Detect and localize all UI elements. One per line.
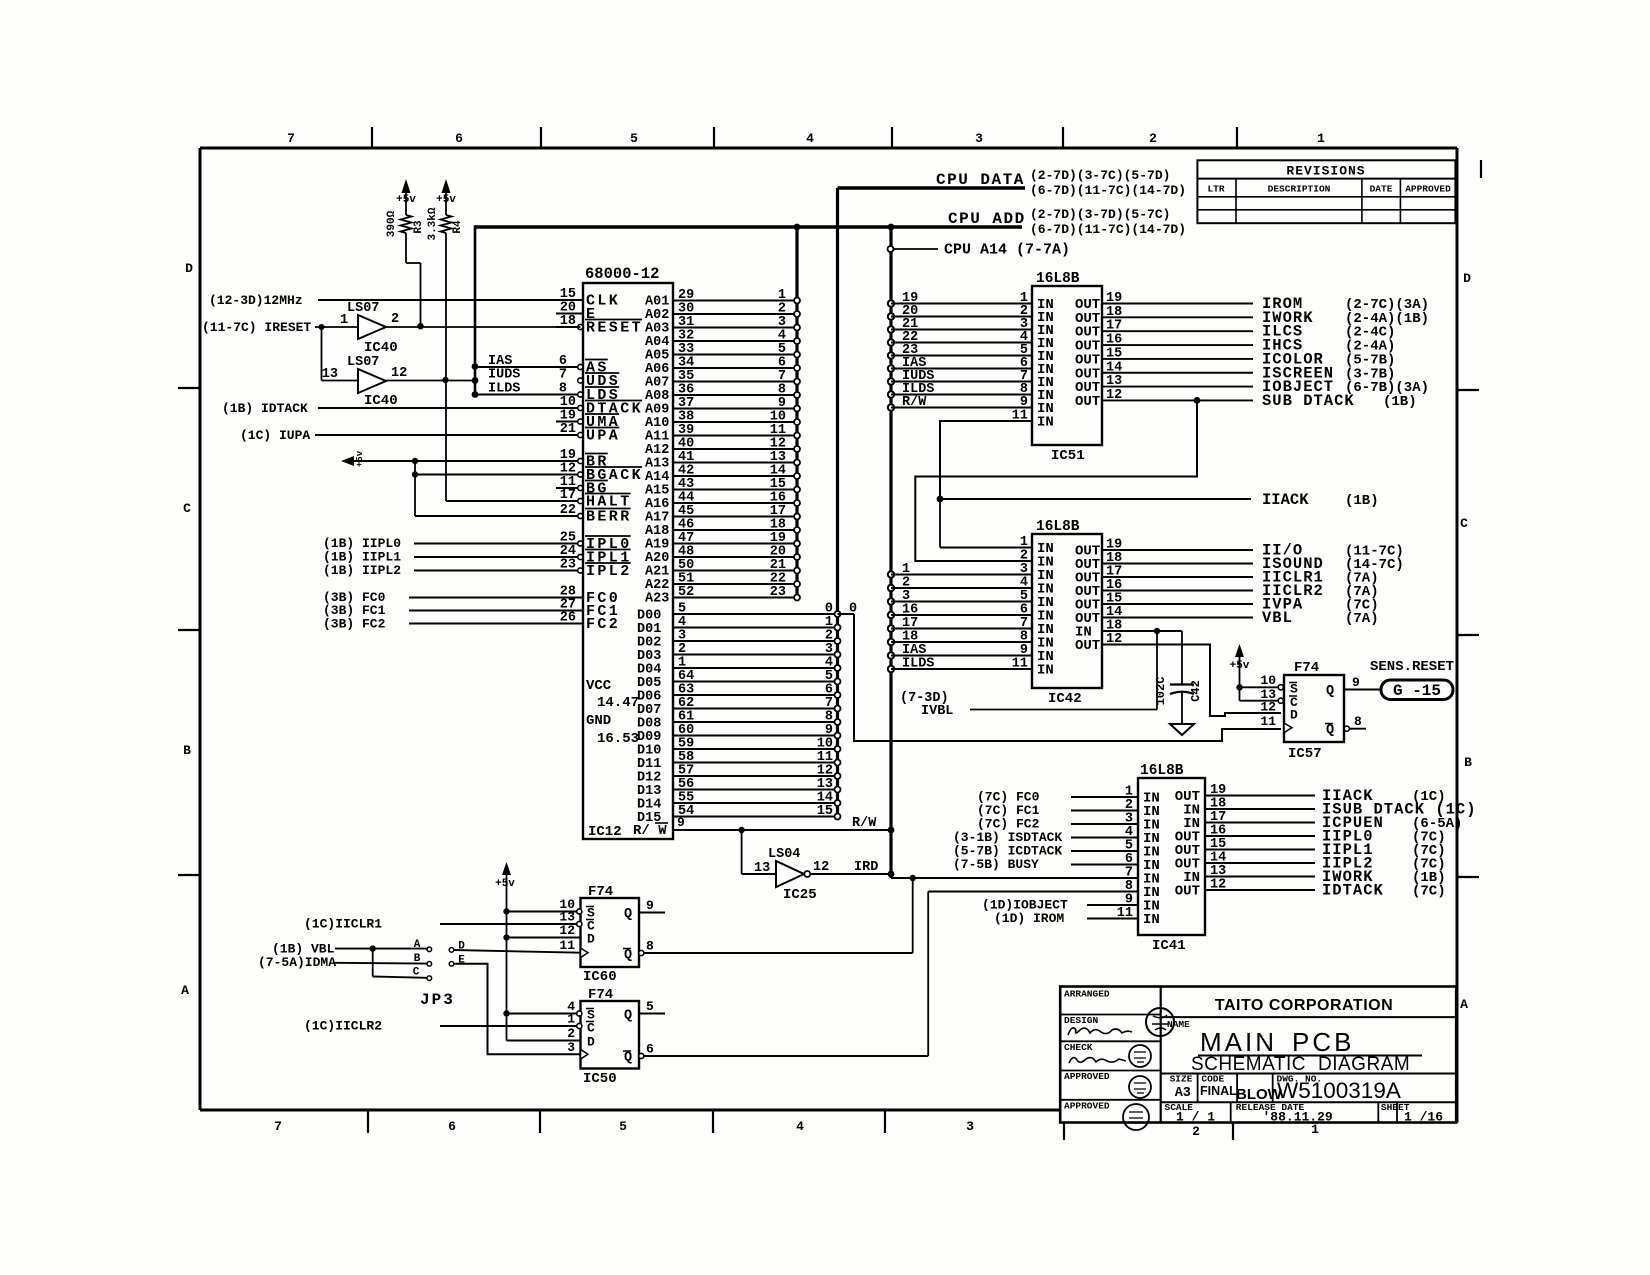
IC42 input pin 11 (ILDS) [888,657,1054,679]
capacitor C42 102C [1154,631,1203,724]
wire AS/strobe bus vertical [474,225,477,394]
CPU pin D03 wire (pin 2, data bit 3) [637,642,841,664]
svg-text:(1B): (1B) [1345,493,1379,509]
title block left column rows [1060,989,1161,1112]
wire IUPA net [240,428,578,443]
svg-text:Q: Q [624,1009,632,1024]
left border tick 2 [178,629,200,631]
IC41 input pin 9 (IOBJECT) [982,893,1160,915]
CPU pin 17 HALT [556,488,632,511]
IC42 output pin 19 II/O [1075,538,1404,560]
top zone number 5 [630,131,638,146]
CPU pin A10 wire (pin 38, addr bit 10) [645,410,800,432]
CPU pin 24 IPL1 [414,544,632,567]
svg-text:15: 15 [817,804,833,819]
IC51 output pin 15 ICOLOR [1075,346,1395,368]
CPU R/W pin label [633,815,685,839]
flip-flop F74 IC57 box [1284,660,1344,762]
jumper JP3 contact B-E [414,953,581,1054]
top zone number 2 [1149,131,1157,146]
svg-text:R4: R4 [452,220,464,234]
svg-text:9: 9 [1352,675,1360,690]
svg-text:16L8B: 16L8B [1036,519,1080,535]
CPU pin D07 wire (pin 62, data bit 7) [637,696,841,718]
IC51 input pin 2 (20) [888,304,1054,326]
svg-text:3.3kΩ: 3.3kΩ [427,207,439,240]
bottom border tick 1 [367,1110,369,1133]
flip-flop F74 IC60 box [581,884,640,985]
title MAIN PCB [1191,1027,1422,1075]
CPU pin UDS [577,373,620,390]
svg-text:13: 13 [754,861,770,876]
CPU pin 26 FC2 [409,611,620,634]
IC51 input pin 1 (19) [888,291,1054,313]
CPU pin A08 wire (pin 36, addr bit 8) [645,383,800,405]
PAL 16L8B IC51 box [1032,271,1102,464]
svg-text:FC2: FC2 [586,616,620,633]
wire IIPL2 net [323,563,578,578]
power +5V arrow for R4 [436,179,456,215]
CPU pin A17 wire (pin 45, addr bit 17) [645,504,800,526]
svg-text:UPA: UPA [586,428,620,445]
CPU pin A18 wire (pin 46, addr bit 18) [645,518,800,540]
svg-text:5: 5 [646,999,654,1014]
svg-text:LS07: LS07 [347,301,379,316]
svg-text:IC50: IC50 [583,1071,617,1087]
svg-text:11: 11 [559,938,575,953]
svg-text:(1C) IUPA: (1C) IUPA [240,428,310,443]
svg-text:CPU A14 (7-7A): CPU A14 (7-7A) [944,242,1070,259]
wire IVBL into IC42 pin18 [900,631,1157,719]
svg-text:7: 7 [274,1119,282,1134]
svg-text:R/W: R/W [902,395,927,410]
svg-text:(1C)IICLR1: (1C)IICLR1 [304,917,382,932]
svg-text:(1C)IICLR2: (1C)IICLR2 [304,1019,382,1034]
svg-text:A23: A23 [645,592,669,607]
svg-text:IN: IN [1143,912,1160,928]
svg-text:14: 14 [1106,360,1122,375]
svg-text:B: B [1464,755,1472,770]
PAL 16L8B IC42 box [1032,519,1102,707]
CPU pin 15 CLK [318,287,620,310]
svg-text:IPL2: IPL2 [586,563,632,580]
signature K.Moriyasu [1068,1028,1132,1035]
IC42 input pin 7 (17) [888,616,1054,638]
IC57 pin 12 D input [1260,700,1298,723]
top zone number 6 [455,131,463,146]
IC42 output pin 12 to IC57 D [1075,632,1281,716]
bottom border tick 3 [712,1110,714,1133]
IC41 output pin 18 ISUB DTACK (1C) [1183,797,1476,819]
CPU pin A02 wire (pin 30, addr bit 2) [645,302,800,324]
bottom zone number 7 [274,1119,282,1134]
svg-text:OUT: OUT [1175,884,1200,900]
svg-text:(1B) IDTACK: (1B) IDTACK [222,401,308,416]
CPU pin A07 wire (pin 35, addr bit 7) [645,369,800,391]
svg-text:DATE: DATE [1370,184,1393,195]
top zone number 7 [287,131,295,146]
CPU pin D00 wire (pin 5, data bit 0) [637,602,857,624]
svg-text:18: 18 [1106,305,1122,320]
IC41 output pin 19 IIACK [1175,783,1446,805]
svg-text:10: 10 [1260,673,1276,688]
bottom zone number 1 [1311,1122,1319,1137]
bottom border tick 2 [539,1110,541,1133]
svg-text:C42: C42 [1189,680,1203,702]
IC51 input pin 8 (ILDS) [888,382,1054,404]
CPU pin 19 BR [556,448,609,471]
svg-text:+5v: +5v [495,878,515,890]
svg-text:Q: Q [624,1051,632,1066]
svg-text:SIZE: SIZE [1170,1074,1193,1085]
wire FC1 net [323,603,583,618]
svg-text:(7A): (7A) [1345,611,1379,627]
wire FC2 net [323,617,583,632]
IC51 output pin 13 IOBJECT [1075,374,1429,396]
svg-text:LS04: LS04 [768,847,800,862]
svg-text:6: 6 [448,1119,456,1134]
svg-text:IRD: IRD [854,860,878,875]
svg-text:11: 11 [1012,657,1028,672]
wire LS07b output / HALT net [386,377,578,501]
CPU pin D02 wire (pin 3, data bit 2) [637,629,841,651]
IC42 input pin 3 (1) [888,562,1054,584]
bottom border tick 5 [1063,1122,1065,1140]
CPU pin A21 wire (pin 50, addr bit 21) [645,558,800,580]
node SENS.RESET connector G-15 [1370,659,1454,700]
CPU pin 12 BGACK [415,462,643,485]
svg-text:TAITO CORPORATION: TAITO CORPORATION [1215,997,1393,1014]
IC51 input pin 5 (23) [888,343,1054,365]
svg-text:IIACK: IIACK [1262,491,1309,509]
CPU pin AS [577,360,609,377]
svg-text:CHECK: CHECK [1064,1042,1093,1053]
left zone letter B [183,743,191,758]
right border tick 2 [1457,634,1479,636]
CPU pin 23 IPL2 [414,558,632,581]
wire D00 data bit to IC57 clock [838,614,1282,741]
IC41 input pin 4 ((3-1B) ISDTACK) [953,825,1160,847]
IC42 input pin 1 (IIACK) [940,499,1054,557]
IC51 input pin 4 (22) [888,330,1054,352]
CPU pin A03 wire (pin 31, addr bit 3) [645,315,800,337]
CPU pin D14 wire (pin 55, data bit 14) [637,791,841,813]
bottom zone number 4 [796,1119,804,1134]
CPU pin A19 wire (pin 47, addr bit 19) [645,531,800,553]
svg-text:DESIGN: DESIGN [1064,1015,1099,1026]
IC42 input pin 5 (3) [888,589,1054,611]
IC60 pin 11 clock input [559,938,588,958]
IC42 output pin 15 IVPA [1075,592,1379,614]
wire IIPL1 net [323,550,578,565]
CPU pin 11 BG [556,475,609,498]
svg-text:16L8B: 16L8B [1140,763,1184,779]
svg-text:9: 9 [646,898,654,913]
svg-text:(7-5A)IDMA: (7-5A)IDMA [258,955,336,970]
svg-text:D: D [587,932,595,947]
CPU pin A12 wire (pin 40, addr bit 12) [645,437,800,459]
IC57 pin 10 S input [1240,673,1299,697]
svg-text:B: B [183,743,191,758]
svg-text:R3: R3 [413,220,425,234]
CPU pin 28 FC0 [409,585,620,608]
wire BR net with +5 arrow [341,450,578,467]
right zone letter C [1460,516,1468,531]
left border tick 3 [178,874,200,876]
CPU pin 10 DTACK [318,395,643,418]
CPU pin D11 wire (pin 58, data bit 11) [637,750,841,772]
svg-text:W5100319A: W5100319A [1277,1078,1401,1103]
svg-text:1: 1 [567,1012,575,1027]
node CPU DATA bus label [838,168,1187,198]
power +5V arrow at IC57 [1230,644,1250,701]
svg-text:A: A [414,939,421,951]
svg-text:102C: 102C [1154,677,1168,706]
svg-text:1 / 1: 1 / 1 [1176,1110,1215,1125]
svg-text:R/W: R/W [852,816,877,831]
svg-text:G -15: G -15 [1393,682,1441,700]
svg-text:FINAL: FINAL [1200,1084,1237,1098]
svg-text:OUT: OUT [1075,394,1100,410]
wire LDS tap [472,382,578,398]
svg-text:A: A [1460,997,1468,1012]
svg-text:11: 11 [1012,409,1028,424]
jumper JP3 label [420,991,455,1009]
IC41 input pin 5 ((5-7B) ICDTACK) [953,839,1160,861]
svg-text:F74: F74 [1294,660,1319,676]
svg-text:6: 6 [646,1042,654,1057]
CPU pin A20 wire (pin 48, addr bit 20) [645,545,800,567]
IC41 input pin 2 ((7C) FC1) [977,798,1160,820]
inverter LS04 IC25 [742,830,830,903]
svg-text:2: 2 [567,1026,575,1041]
top-right corner mark [1480,160,1482,178]
svg-text:(1D) IROM: (1D) IROM [994,911,1064,926]
wire 12MHz clock net [209,293,583,308]
right zone letter A [1460,997,1468,1012]
svg-text:+5v: +5v [436,194,456,206]
IC41 output pin 15 IIPL1 [1175,837,1446,859]
wire IRESET input net [202,320,358,335]
svg-text:CODE: CODE [1201,1074,1224,1085]
svg-text:11: 11 [1117,906,1133,921]
CPU pin A22 wire (pin 51, addr bit 22) [645,572,800,594]
svg-text:68000-12: 68000-12 [585,265,659,283]
top border tick 4 [891,127,893,148]
CPU pin 27 FC1 [409,598,620,621]
buffer U-LS07a IC40 (pins 1-2) [340,301,399,356]
PAL 16L8B IC41 box [1138,763,1205,954]
CPU 68000 IC12 box [583,265,673,840]
wire IDTACK net [222,401,578,416]
svg-text:12: 12 [1210,878,1226,893]
svg-text:BERR: BERR [586,509,632,526]
bottom border tick 6 [1232,1122,1234,1140]
svg-text:3: 3 [966,1119,974,1134]
svg-text:D15: D15 [637,811,661,826]
svg-text:JP3: JP3 [420,991,455,1009]
CPU pin D05 wire (pin 64, data bit 5) [637,669,841,691]
power +5V arrow at IC60/IC50 [495,862,515,1041]
top border tick 2 [540,127,542,148]
svg-text:4: 4 [806,131,814,146]
wire R/W from CPU [673,816,894,833]
svg-text:IC25: IC25 [783,887,817,903]
svg-text:IC12: IC12 [588,824,622,840]
right border tick 1 [1457,389,1479,391]
svg-text:7: 7 [287,131,295,146]
CPU power pins text [586,678,639,747]
svg-text:12: 12 [1106,388,1122,403]
svg-text:IC41: IC41 [1152,938,1186,954]
svg-text:17: 17 [1106,319,1122,334]
svg-text:1: 1 [340,313,348,328]
svg-text:8: 8 [1354,714,1362,729]
IC51 output pin 12 SUB DTACK [1075,388,1417,410]
IC41 input pin 1 ((7C) FC0) [977,785,1160,807]
CPU pin D12 wire (pin 57, data bit 12) [637,764,841,786]
CPU pin A14 wire (pin 42, addr bit 14) [645,464,800,486]
wire IRD net [811,860,895,877]
svg-text:(7-5B) BUSY: (7-5B) BUSY [953,857,1039,872]
power +5V arrow for R3 [396,179,416,215]
svg-text:+5v: +5v [396,194,416,206]
IC51 input pin 3 (21) [888,317,1054,339]
CPU pin A15 wire (pin 43, addr bit 15) [645,477,800,499]
top zone number 4 [806,131,814,146]
IC51 input pin 6 (IAS) [888,356,1054,378]
CPU pin D13 wire (pin 56, data bit 13) [637,777,841,799]
name stamp circle 1 [1146,1008,1174,1036]
svg-text:LTR: LTR [1207,184,1224,195]
svg-text:2: 2 [1192,1124,1200,1139]
top border tick 6 [1236,127,1238,148]
CPU pin LDS [577,387,620,404]
IC50 pin 4 S input [503,999,595,1023]
CPU pin A05 wire (pin 33, addr bit 5) [645,342,800,364]
CPU pin A01 wire (pin 29, addr bit 1) [645,288,800,310]
wire IIPL0 net [323,536,578,551]
svg-text:IVBL: IVBL [921,704,953,719]
svg-text:Q: Q [624,907,632,922]
IC51 input pin 11 (IIACK feedback) [940,409,1054,500]
svg-text:A: A [181,983,189,998]
name stamp circle 4 [1123,1104,1149,1130]
svg-text:2: 2 [391,312,399,327]
IC41 input pin 3 ((7C) FC2) [977,812,1160,834]
IC51 output pin 16 IHCS [1075,333,1395,355]
right border tick 3 [1457,876,1479,878]
jumper JP3 contact C [373,949,432,981]
IC60 pin 10 S input [503,897,595,921]
svg-text:19: 19 [1106,291,1122,306]
wire control bus vertical [889,227,892,878]
svg-text:SUB DTACK: SUB DTACK [1262,392,1355,410]
svg-text:REVISIONS: REVISIONS [1286,164,1365,179]
bottom zone number 5 [619,1119,627,1134]
IC51 output pin 17 ILCS [1075,319,1395,341]
svg-text:A3: A3 [1175,1086,1191,1101]
CPU pin A06 wire (pin 34, addr bit 6) [645,356,800,378]
IC51 input pin 7 (IUDS) [888,369,1054,391]
svg-text:D: D [1463,271,1471,286]
svg-text:12: 12 [813,860,829,875]
IC42 feedback pin 18 IN (VBL) [1075,619,1182,641]
wire SUB DTACK branch to IC42 pin2 [915,397,1200,561]
svg-text:16.53: 16.53 [597,731,639,747]
svg-text:IC57: IC57 [1288,746,1322,762]
svg-text:D: D [185,261,193,276]
jumper JP3 contact A-D [414,939,581,953]
svg-text:1 /16: 1 /16 [1404,1110,1443,1125]
svg-text:16L8B: 16L8B [1036,271,1080,287]
svg-text:3: 3 [567,1040,575,1055]
svg-text:390Ω: 390Ω [386,210,398,237]
svg-text:SENS.RESET: SENS.RESET [1370,659,1454,675]
IC41 output pin 17 ICPUEN [1183,810,1462,832]
IC60 pin 13 C input (IICLR1) [304,910,595,934]
IC57 pin 13 C input [1240,687,1299,710]
svg-text:ARRANGED: ARRANGED [1064,989,1110,1000]
svg-text:(2-7D)(3-7C)(5-7D): (2-7D)(3-7C)(5-7D) [1030,168,1170,183]
title scale/date/sheet row [1161,1102,1456,1125]
svg-text:F74: F74 [588,884,613,900]
svg-text:8: 8 [646,939,654,954]
CPU pin 18 RESET [556,314,643,337]
svg-text:IUDS: IUDS [488,368,520,383]
svg-text:D: D [1290,708,1298,723]
svg-text:13: 13 [1106,374,1122,389]
CPU pin A09 wire (pin 37, addr bit 9) [645,396,800,418]
svg-text:(6-7D)(11-7C)(14-7D): (6-7D)(11-7C)(14-7D) [1030,183,1186,198]
IC41 output pin 16 IIPL0 [1175,824,1446,846]
title block frame [1060,987,1456,1123]
top border tick 3 [713,127,715,148]
bottom zone number 3 [966,1119,974,1134]
svg-text:CPU DATA: CPU DATA [936,171,1025,189]
wire IRESET branch to LS07b [322,327,359,381]
buffer U-LS07b IC40 (pins 13-12) [322,355,407,409]
CPU pin D15 wire (pin 54, data bit 15) [637,804,841,826]
IC41 input pin 8 (from IC50 Qbar) [928,879,1160,901]
signature t.morita [1069,1058,1126,1063]
IC42 input pin 9 (IAS) [888,643,1054,665]
svg-text:(2-7D)(3-7D)(5-7C): (2-7D)(3-7D)(5-7C) [1030,207,1170,222]
IC50 pin 1 C input (IICLR2) [304,1012,595,1036]
svg-text:5: 5 [619,1119,627,1134]
svg-text:1: 1 [1317,131,1325,146]
svg-text:16: 16 [1106,333,1122,348]
IC42 input pin 8 (18) [888,630,1054,652]
wire IIACK net [937,491,1379,509]
svg-text:(3B) FC2: (3B) FC2 [323,617,386,632]
IC42 output pin 17 IICLR1 [1075,565,1379,587]
wire BERR net [415,515,578,517]
wire VBL net [272,942,427,957]
svg-text:5: 5 [630,131,638,146]
top zone number 1 [1317,131,1325,146]
CPU pin D04 wire (pin 1, data bit 4) [637,656,841,678]
IC51 output pin 19 IROM [1075,291,1429,313]
svg-text:2: 2 [1149,131,1157,146]
IC42 input pin 2 (SUB DTACK) [1020,549,1054,571]
CPU pin A16 wire (pin 44, addr bit 16) [645,491,800,513]
CPU pin 25 IPL0 [414,531,632,554]
wire AS tap [472,354,578,370]
svg-text:SCHEMATIC: SCHEMATIC [1191,1054,1306,1075]
IC42 input pin 4 (2) [888,576,1054,598]
left zone letter A [181,983,189,998]
